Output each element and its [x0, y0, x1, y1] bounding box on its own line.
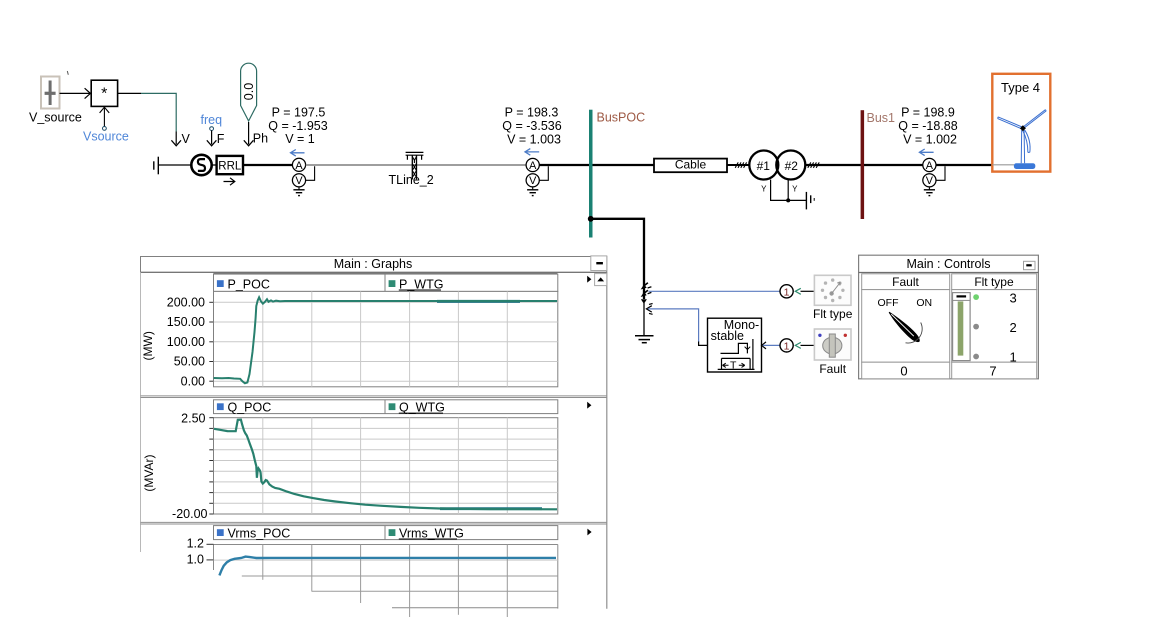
voltage source circle	[191, 155, 211, 175]
section 1 expand arrow	[587, 276, 591, 283]
svg-text:1.2: 1.2	[187, 536, 204, 550]
measurement text P/Q/V source	[268, 106, 327, 147]
wire Bus1 to A3	[864, 164, 923, 166]
plot Vrms partial frame	[214, 545, 558, 609]
legend Q_POC	[217, 400, 271, 414]
svg-text:100.00: 100.00	[167, 335, 205, 349]
legend Vrms_POC	[217, 526, 290, 540]
fault component arrows	[641, 283, 652, 304]
Flt type value cell	[952, 362, 1037, 379]
selector dot 1	[973, 354, 979, 360]
svg-text:Fault: Fault	[892, 275, 919, 289]
measurement text P/Q/V POC	[502, 106, 561, 147]
svg-text:Q_POC: Q_POC	[228, 400, 272, 414]
ground V1	[293, 187, 304, 196]
plot Q gridlines	[214, 418, 558, 514]
arrow into node 1 fault	[795, 342, 801, 348]
legend P_POC	[217, 277, 270, 291]
phase constant 0.0 capsule	[241, 63, 257, 121]
plot Vrms axis ticks	[207, 544, 214, 560]
Flt type header cell	[952, 274, 1037, 290]
Vsource signal input	[83, 107, 129, 143]
section divider 1	[141, 396, 607, 398]
Type 4 wind turbine box	[992, 74, 1050, 172]
svg-text:0: 0	[900, 363, 907, 378]
svg-text:A: A	[926, 160, 934, 172]
graphs minimize button	[591, 256, 607, 271]
switch needle	[889, 312, 922, 343]
arrow into node 1	[795, 288, 801, 294]
svg-text:Q = -18.88: Q = -18.88	[898, 119, 957, 133]
plot Q frame	[214, 418, 558, 514]
svg-text:Vsource: Vsource	[83, 130, 129, 144]
svg-text:Cable: Cable	[675, 158, 707, 172]
curve Vrms_POC	[219, 557, 556, 576]
hatch marks left	[735, 162, 746, 167]
blue arrow (meter 3)	[919, 149, 933, 156]
svg-text:T: T	[730, 359, 737, 371]
transformer neutral wiring	[771, 180, 807, 201]
svg-text:F: F	[217, 132, 225, 146]
junction dot	[786, 198, 790, 202]
node freq / F	[201, 113, 225, 146]
blue arrow (meter 2)	[525, 149, 539, 156]
wire fault trigger signal	[648, 309, 699, 342]
svg-text:P = 198.9: P = 198.9	[901, 106, 955, 120]
ground V3	[924, 187, 935, 196]
svg-text:Type 4: Type 4	[1001, 80, 1040, 95]
svg-text:Main : Graphs: Main : Graphs	[334, 257, 413, 271]
svg-text:V: V	[295, 175, 303, 187]
wire node to flt-type dial	[801, 290, 815, 292]
svg-text:Ph: Ph	[253, 132, 268, 146]
wire RRL to ammeter	[243, 164, 292, 166]
legend P_WTG	[389, 277, 444, 291]
wire ground to source	[158, 164, 191, 166]
plot P gridlines	[214, 291, 558, 386]
legend box Q	[214, 400, 558, 414]
svg-text:A: A	[529, 160, 537, 172]
ground (fault)	[635, 336, 654, 343]
svg-text:0.00: 0.00	[181, 374, 205, 388]
RRL block	[217, 156, 243, 174]
svg-text:-20.00: -20.00	[172, 507, 207, 521]
plot Vrms y labels	[187, 536, 204, 566]
measurement text P/Q/V WTG	[898, 106, 957, 147]
svg-text:Fault: Fault	[819, 362, 846, 376]
svg-text:TLine_2: TLine_2	[389, 173, 434, 187]
tower TLine_2	[406, 152, 424, 179]
svg-text:*: *	[101, 86, 107, 103]
svg-text:V = 1.003: V = 1.003	[507, 133, 561, 147]
plot Q y labels	[172, 411, 207, 521]
bus Bus1	[861, 110, 865, 219]
arrow below RRL	[224, 178, 235, 185]
ammeter A2	[526, 158, 539, 171]
wire multiplier to V input	[118, 92, 141, 94]
ground (source side)	[154, 157, 159, 175]
svg-text:2.50: 2.50	[181, 411, 205, 425]
curve Q_WTG	[440, 507, 542, 510]
svg-text:A: A	[295, 160, 303, 172]
scrollbar up button	[595, 274, 607, 286]
svg-text:RRL: RRL	[218, 160, 242, 172]
svg-text:(MW): (MW)	[141, 331, 155, 360]
wire slider to multiplier	[60, 92, 91, 94]
svg-text:0.0: 0.0	[242, 83, 256, 100]
selector numbers	[1010, 290, 1017, 364]
selector dot 3 (active)	[973, 294, 979, 300]
svg-text:Vrms_WTG: Vrms_WTG	[399, 526, 464, 540]
curve P_WTG	[437, 300, 520, 303]
svg-text:Flt type: Flt type	[813, 307, 853, 321]
data node 1 (flt type)	[780, 285, 793, 299]
gray transmission wire	[306, 164, 526, 166]
wire transformer to Bus1	[805, 164, 861, 166]
svg-text:V: V	[529, 175, 537, 187]
slider control V_source	[41, 77, 60, 109]
svg-text:V = 1.002: V = 1.002	[903, 133, 957, 147]
V2 connector	[540, 166, 549, 180]
Flt type selector area	[952, 290, 1037, 363]
section 2 expand arrow	[587, 402, 591, 409]
svg-text:V_source: V_source	[29, 111, 82, 125]
svg-text:Y: Y	[761, 184, 767, 193]
curve P_POC	[214, 297, 557, 383]
svg-text:Q_WTG: Q_WTG	[399, 400, 445, 414]
data node 1 (fault)	[780, 339, 793, 353]
svg-text:Main : Controls: Main : Controls	[906, 257, 990, 271]
svg-text:#2: #2	[785, 159, 799, 173]
svg-text:#1: #1	[757, 159, 771, 173]
svg-text:7: 7	[989, 363, 996, 378]
svg-text:(MVAr): (MVAr)	[142, 454, 156, 491]
voltmeter V3	[923, 174, 936, 188]
controls minimize button	[1024, 261, 1036, 269]
svg-text:200.00: 200.00	[167, 296, 205, 310]
svg-text:2: 2	[1010, 320, 1017, 335]
wire fault to ground	[643, 303, 645, 336]
legend Q_WTG	[389, 400, 445, 414]
wire A3 to turbine	[936, 164, 992, 166]
plot P axis ticks	[209, 302, 213, 381]
wire fault type signal	[649, 290, 781, 292]
svg-text:Y: Y	[792, 184, 798, 193]
svg-text:Bus1: Bus1	[867, 111, 896, 125]
voltmeter V2	[526, 174, 539, 188]
voltmeter V1	[292, 174, 305, 188]
hatch marks right	[808, 162, 819, 167]
Cable block	[654, 158, 727, 173]
wire source to RRL	[212, 164, 217, 166]
plot Q axis ticks	[209, 418, 213, 514]
plot P y labels	[167, 296, 205, 389]
wire A2 to Cable through BusPOC	[540, 164, 655, 166]
open arrow on monostable feed	[646, 304, 652, 315]
selector slider	[953, 293, 971, 361]
svg-text:P = 197.5: P = 197.5	[272, 106, 326, 120]
svg-text:Q = -1.953: Q = -1.953	[268, 119, 327, 133]
blue arrow (meter 1)	[291, 150, 305, 157]
svg-text:V: V	[182, 132, 191, 146]
legend box Vrms	[214, 526, 558, 540]
node V	[171, 132, 190, 147]
arrow into monostable	[762, 342, 766, 349]
svg-text:Flt type: Flt type	[974, 275, 1014, 289]
V1 connector	[306, 166, 315, 180]
tick mark	[67, 71, 68, 75]
svg-text:Q = -3.536: Q = -3.536	[502, 119, 561, 133]
turbine hub	[1020, 125, 1026, 131]
junction node on BusPOC	[588, 216, 594, 222]
svg-text:1.0: 1.0	[187, 553, 204, 567]
controls panel frame	[859, 255, 1039, 379]
svg-text:P_WTG: P_WTG	[399, 277, 443, 291]
multiplier block	[91, 80, 117, 106]
plot P frame	[214, 291, 558, 386]
selector dot 2	[973, 324, 979, 330]
controls title bar	[859, 272, 1039, 274]
monostable block	[708, 318, 762, 372]
ammeter A1	[292, 158, 305, 172]
svg-text:P_POC: P_POC	[228, 277, 270, 291]
graphs panel frame	[141, 257, 607, 609]
svg-text:V: V	[926, 175, 934, 187]
svg-text:freq: freq	[201, 113, 223, 127]
wind turbine icon	[992, 110, 1046, 169]
Fault switch area	[862, 290, 950, 363]
svg-text:OFF: OFF	[878, 297, 899, 309]
Fault value cell	[862, 362, 950, 379]
Fault header cell	[862, 274, 950, 290]
ammeter A3	[923, 158, 936, 171]
legend Vrms_WTG	[389, 526, 464, 540]
wire bus to fault branch	[592, 219, 644, 299]
wire monostable to node 1	[763, 344, 780, 346]
legend box P	[214, 274, 558, 291]
bus BusPOC	[589, 110, 593, 238]
curve Q_POC	[214, 420, 557, 510]
transformer T1	[749, 151, 805, 194]
svg-text:Vrms_POC: Vrms_POC	[228, 526, 291, 540]
section 1 top shadow	[214, 272, 558, 274]
node Ph	[244, 122, 268, 146]
ground (transformer)	[806, 192, 814, 210]
wire corner to monostable	[699, 342, 708, 346]
svg-text:BusPOC: BusPOC	[597, 111, 646, 125]
wire node to fault switch icon	[801, 344, 815, 346]
wire cable to transformer	[727, 164, 750, 166]
V3 connector	[936, 166, 945, 180]
svg-text:50.00: 50.00	[174, 355, 205, 369]
svg-text:1: 1	[784, 340, 790, 352]
section 3 expand arrow	[587, 529, 591, 536]
plot Vrms gridlines	[214, 545, 558, 617]
svg-text:3: 3	[1010, 290, 1017, 305]
ground V2	[527, 187, 538, 196]
svg-text:1: 1	[784, 286, 790, 298]
flt type dial box	[814, 275, 851, 305]
fault switch icon box	[814, 329, 851, 360]
svg-text:ON: ON	[916, 297, 932, 309]
svg-text:V = 1: V = 1	[285, 132, 315, 146]
section divider 2	[141, 522, 607, 524]
svg-text:stable: stable	[711, 329, 744, 343]
svg-text:P = 198.3: P = 198.3	[505, 106, 559, 120]
svg-text:150.00: 150.00	[167, 315, 205, 329]
